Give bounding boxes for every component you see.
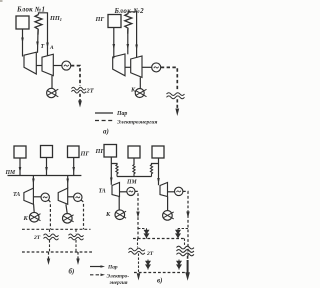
shaft to generator xyxy=(53,65,62,67)
wire turbine2 to condenser 2 (б) xyxy=(66,204,67,213)
shaft to generator (block 2) xyxy=(142,66,152,68)
turbine 1 (б) xyxy=(24,188,34,204)
transformer feeder stubs (б) xyxy=(50,229,77,252)
electric wire from G1 (dashed) xyxy=(71,66,80,86)
svg-text:в): в) xyxy=(157,277,162,285)
boiler square 3 (б) xyxy=(68,146,80,158)
svg-text:К: К xyxy=(23,215,29,222)
arrow to turbine 2 (в) xyxy=(157,178,160,184)
electric wire from G2 (dashed) xyxy=(161,67,178,90)
LP turbine cylinder (block 2) xyxy=(131,56,142,77)
hook to breaker left (в) xyxy=(138,228,147,230)
svg-text:а): а) xyxy=(103,128,109,136)
legend electric line (в) xyxy=(90,274,101,276)
svg-text:б): б) xyxy=(69,268,75,276)
electric wire from generator 1 (б) xyxy=(48,200,50,229)
branch boiler3 to main (в) xyxy=(152,164,159,166)
svg-text:ПГ: ПГ xyxy=(95,148,105,155)
transformer 2 (б) xyxy=(69,234,84,237)
output stub 2 (б) xyxy=(77,252,79,259)
shaft to generator 2 (б) xyxy=(68,196,74,198)
valve zigzag 3 (в) xyxy=(150,165,152,177)
flow arrow (block 2 reheat 2) xyxy=(135,45,138,51)
svg-text:ПП1: ПП1 xyxy=(49,15,62,22)
arrow on electric wire 1 (в) xyxy=(136,212,139,219)
condenser 1 (в) xyxy=(115,210,125,220)
condenser 2 cross (б) xyxy=(63,215,74,222)
shaft to generator 1 (б) xyxy=(33,196,41,198)
generator 1 tilde (в) xyxy=(129,191,133,192)
turbine 1 (в) xyxy=(112,183,120,197)
right heavy lead down (в) xyxy=(187,256,189,261)
svg-text:ПГ: ПГ xyxy=(95,16,105,23)
output arrow left (в) xyxy=(137,273,141,280)
arrow on electric wire 2 (в) xyxy=(186,212,189,219)
turbine 2 (б) xyxy=(58,188,67,204)
svg-text:2Т: 2Т xyxy=(146,251,154,257)
output arrow 1 (б) xyxy=(47,259,50,266)
boiler square ПГ (block 1) xyxy=(16,16,29,29)
steam main ПМ (б) xyxy=(8,175,82,177)
generator 2 (в) xyxy=(175,187,183,195)
transformer 1 (б) xyxy=(44,234,59,237)
breaker right upper (в) xyxy=(176,229,180,239)
output stub 1 (б) xyxy=(48,252,50,259)
arrow down (block 1 output) xyxy=(78,101,82,108)
output arrow 2 (б) xyxy=(76,259,79,266)
transformer stub right (в) xyxy=(184,239,186,247)
legend steam arrowhead (в) xyxy=(101,265,106,268)
generator 2 tilde (в) xyxy=(177,191,181,192)
wire: boiler to HP (block 2) xyxy=(113,28,115,59)
wire: LP to condenser (block 2) xyxy=(139,77,141,88)
svg-text:ПМ: ПМ xyxy=(126,180,138,186)
wire: boiler to HP turbine xyxy=(22,29,24,57)
output arrow right heavy (в) xyxy=(185,272,190,281)
breaker right lower (в) xyxy=(177,260,181,270)
wire boiler3 to main (б) xyxy=(73,158,75,176)
condenser cross lines (block 2) xyxy=(135,89,146,96)
legend electric arrowhead (в) xyxy=(101,274,106,277)
condenser 2 (в) xyxy=(163,211,173,221)
valve zigzag 1 (в) xyxy=(116,165,118,177)
electric bus top (в) xyxy=(133,238,186,240)
svg-text:энергия: энергия xyxy=(109,280,128,286)
legend electric line xyxy=(95,120,113,122)
shaft HP-LP (block 2) xyxy=(125,66,131,68)
generator G2 xyxy=(152,63,161,72)
wire: reheater bottom to HP exhaust (block 2) xyxy=(127,29,129,54)
electric wire from generator 1 (в) xyxy=(135,191,138,238)
generator 1 (б) xyxy=(41,193,49,201)
arrow to turbine 2 (б) xyxy=(66,179,69,185)
LP turbine cylinder (block 1) xyxy=(42,54,53,75)
svg-text:ПМ: ПМ xyxy=(5,170,17,176)
hook to breaker right (в) xyxy=(178,228,188,230)
generator 1 tilde (б) xyxy=(43,197,47,198)
generator 2 tilde (б) xyxy=(76,197,80,198)
branch boiler1 to main (в) xyxy=(111,164,117,166)
wire boiler1 to main (б) xyxy=(19,158,21,176)
condenser 1 (б) xyxy=(29,212,39,222)
svg-text:Т: Т xyxy=(41,44,45,50)
transformer (block 2) xyxy=(167,93,185,96)
shaft HP-LP xyxy=(36,65,42,67)
wire turbine1 to condenser 1 (в) xyxy=(118,197,120,211)
svg-text:ПГ: ПГ xyxy=(80,151,90,158)
wire main to turbine 2 (б) xyxy=(67,176,69,189)
condenser 1 cross (в) xyxy=(115,211,126,218)
generator G1 tilde xyxy=(64,65,69,66)
arrow boiler1 (б) xyxy=(19,167,22,173)
wire main to turbine 1 (б) xyxy=(32,176,34,189)
wire boiler3 to turbine 2 (в) xyxy=(158,158,160,185)
svg-text:ТА: ТА xyxy=(13,192,20,198)
svg-text:К: К xyxy=(105,211,111,218)
wire boiler2 to main (б) xyxy=(46,158,48,176)
wire turbine1 to condenser (б) xyxy=(33,204,36,212)
flow arrow on boiler wire xyxy=(21,38,24,44)
condenser (block 2) xyxy=(135,89,144,98)
arrow down (block 2 output) xyxy=(175,109,179,117)
generator G1 xyxy=(62,61,71,70)
condenser cross lines xyxy=(47,89,59,97)
legend steam line xyxy=(95,112,113,114)
wire: reheater bottom down to HP exhaust xyxy=(37,30,40,53)
electric wire to consumers (block 1) xyxy=(79,94,81,101)
reheater zigzag ПП1 xyxy=(35,15,42,35)
HP turbine cylinder (block 2) xyxy=(113,54,125,76)
boiler square 2 (б) xyxy=(41,146,53,158)
arrow to turbine 1 (б) xyxy=(32,179,35,185)
electric wire from generator 2 (в) xyxy=(183,191,188,256)
wire boiler2 down (в) xyxy=(133,158,135,165)
generator 1 (в) xyxy=(127,187,135,195)
boiler square 1 (в) xyxy=(104,145,117,158)
svg-text:2Т: 2Т xyxy=(33,235,41,241)
wire: LP to condenser xyxy=(51,76,53,89)
electric bus bottom (в) xyxy=(134,272,186,274)
breaker left upper (в) xyxy=(144,229,148,239)
breaker left lower (в) xyxy=(146,260,150,270)
arrow boiler2 (б) xyxy=(45,167,48,173)
steam main ПМ (в) xyxy=(117,176,152,178)
generator 2 (б) xyxy=(74,193,82,201)
reheater zigzag (block 2) xyxy=(125,14,132,34)
svg-text:Блок №2: Блок №2 xyxy=(114,7,145,15)
wire: reheater top bar to right feed xyxy=(39,13,48,56)
flow arrow (block 2 main steam) xyxy=(113,44,116,50)
shaft to generator 2 (в) xyxy=(168,191,175,193)
valve zigzag 2 (в) xyxy=(133,165,135,177)
flow arrow A xyxy=(46,43,49,49)
boiler square 1 (б) xyxy=(14,146,26,158)
condenser 2 cross (в) xyxy=(163,212,174,219)
electric bus bottom (б) xyxy=(22,251,93,253)
transformer 2Т (block 1) xyxy=(72,87,86,90)
svg-text:2Т: 2Т xyxy=(86,88,95,95)
condenser 2 (б) xyxy=(63,214,73,224)
electric wire from generator 2 (б) xyxy=(81,200,84,229)
boiler square (block 2) xyxy=(108,15,121,28)
generator G2 tilde xyxy=(154,67,159,68)
wire turbine2 to condenser 2 (в) xyxy=(167,197,169,211)
shaft to generator 1 (в) xyxy=(120,191,127,193)
HP turbine cylinder (block 1) xyxy=(24,52,36,74)
boiler square 2 (в) xyxy=(128,146,140,158)
flow arrow T xyxy=(36,42,39,48)
wire boiler1 to turbine 1 (в) xyxy=(110,157,112,185)
left transformer lead down (в) xyxy=(138,254,140,273)
transformer stub left (в) xyxy=(137,239,139,248)
svg-text:Электроэнергия: Электроэнергия xyxy=(117,120,157,126)
condenser 1 cross (б) xyxy=(30,214,41,221)
flow arrow (block 2 reheat 1) xyxy=(127,44,130,50)
svg-text:А: А xyxy=(49,45,54,51)
boiler square 3 (в) xyxy=(152,146,164,158)
transformer right (в), three windings xyxy=(177,246,194,249)
transformer 2Т (в left) xyxy=(129,248,145,251)
arrow to turbine 1 (в) xyxy=(110,178,113,184)
arrow boiler3 (б) xyxy=(72,167,75,173)
electric bus top (б) xyxy=(22,228,91,230)
turbine 2 (в) xyxy=(160,183,168,197)
svg-text:Пар: Пар xyxy=(116,111,127,117)
svg-text:Электро-: Электро- xyxy=(107,274,130,280)
legend steam line (в) xyxy=(90,266,101,268)
condenser (block 1) xyxy=(47,88,56,97)
wire: reheater top bar (block 2) xyxy=(128,12,136,58)
electric wire to consumers (block 2) xyxy=(176,99,178,109)
svg-text:ТА: ТА xyxy=(99,189,106,195)
svg-text:Пар: Пар xyxy=(107,264,118,270)
page corner speck xyxy=(0,0,3,2)
